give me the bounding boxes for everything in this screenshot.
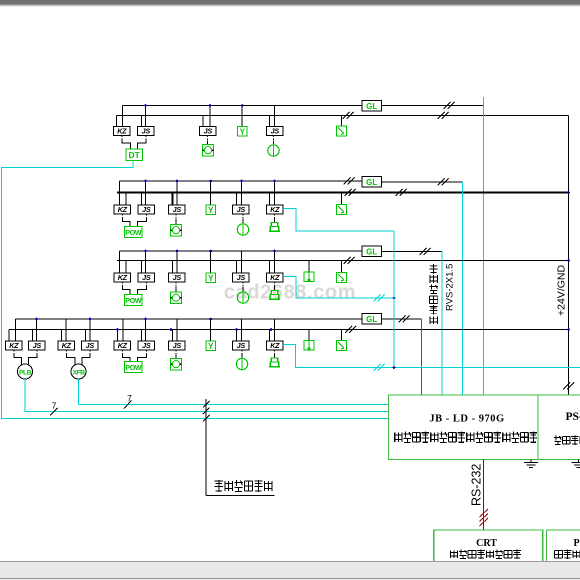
svg-text:JS: JS: [237, 341, 246, 350]
module JS row3-1: [138, 273, 155, 282]
module KZ row2-2: [274, 214, 276, 218]
module JS row1-2: [207, 136, 209, 141]
printer box: [546, 530, 580, 562]
svg-text:GL: GL: [366, 315, 377, 324]
row2 module taps: [125, 193, 127, 206]
multi line control label leader: [206, 495, 275, 497]
device DT fire door module: [126, 149, 143, 161]
module KZ row1: [114, 127, 131, 136]
status bar bottom: [0, 561, 580, 563]
svg-text:RVS-2X1.5: RVS-2X1.5: [445, 264, 456, 311]
svg-text:Y: Y: [240, 128, 246, 137]
row3 control cyan wire: [283, 277, 394, 299]
svg-text:JS: JS: [237, 273, 246, 282]
module KZ row4-1: [114, 341, 131, 350]
gl repeater row1: [362, 101, 382, 112]
ground symbol PS: [577, 460, 579, 463]
row1 loop drop cyan: [483, 97, 485, 395]
svg-text:KZ: KZ: [270, 341, 280, 350]
panel name hanzi: [395, 432, 402, 442]
svg-text:JS: JS: [142, 205, 151, 214]
svg-text:JB - LD - 970G: JB - LD - 970G: [429, 414, 504, 425]
svg-text:KZ: KZ: [270, 205, 280, 214]
module JS row4-2: [175, 350, 177, 355]
module JS row2-1: [138, 205, 155, 214]
svg-text:GL: GL: [366, 178, 377, 187]
power module POW row3: [125, 295, 143, 306]
sound light alarm row4: [304, 341, 314, 351]
wires modules to POW row3: [121, 282, 123, 287]
module JS row2-2: [175, 214, 177, 219]
svg-text:Y: Y: [208, 274, 214, 283]
gl repeater row2: [362, 177, 382, 188]
row2 control cyan wire: [283, 209, 394, 232]
svg-text:+24V/GND: +24V/GND: [556, 265, 568, 316]
module JS row3-2: [175, 282, 177, 287]
row2 GL output wire: [382, 181, 463, 183]
row3 lower bus wire: [117, 260, 569, 262]
power module POW row2: [125, 227, 143, 238]
row2 upper bus wire: [120, 180, 363, 182]
hash on 24V feed: [563, 383, 574, 390]
svg-text:KZ: KZ: [118, 205, 128, 214]
svg-text:JS: JS: [271, 127, 280, 136]
svg-text:JS: JS: [173, 273, 182, 282]
junction dots row1: [144, 104, 147, 107]
multi line control label text: [215, 480, 223, 492]
row1 GL output wire: [382, 105, 484, 107]
manual call point Y row2: [206, 205, 216, 215]
alarm bell row4: [271, 358, 277, 362]
module KZ row4-a: [6, 341, 23, 350]
svg-text:JS: JS: [173, 205, 182, 214]
printer name hanzi: [555, 550, 563, 558]
short circuit isolator row1: [337, 126, 347, 136]
module JS row2-3: [242, 214, 244, 219]
row4 loop drop magenta: [421, 319, 423, 395]
module KZ row3: [114, 273, 131, 282]
row3 GL output wire: [382, 251, 443, 253]
RS-232 hash marks: [480, 509, 489, 517]
gl repeater row3: [362, 246, 382, 257]
module JS row4-a: [29, 341, 46, 350]
row2 lower bus wire thick: [117, 191, 569, 193]
wires modules to PLB pump: [13, 350, 15, 355]
alarm bell row2: [271, 223, 277, 227]
heat detector row3: [237, 292, 248, 303]
svg-text:DT: DT: [129, 150, 141, 160]
CRT name hanzi: [450, 550, 457, 558]
sound light alarm row3: [304, 272, 314, 282]
PLB control cable cyan: [25, 379, 389, 412]
svg-text:JS: JS: [142, 341, 151, 350]
wire hash marks row3: [344, 257, 355, 264]
svg-text:7: 7: [127, 393, 132, 403]
ground symbol JB: [530, 460, 532, 463]
svg-text:GL: GL: [366, 247, 377, 256]
svg-text:GL: GL: [366, 102, 377, 111]
manual call point Y row3: [206, 273, 216, 283]
svg-text:JS: JS: [173, 341, 182, 350]
cyan collector vertical: [393, 231, 395, 368]
smoke detector row3: [171, 292, 182, 304]
alarm bell row3: [271, 291, 277, 295]
svg-text:JS: JS: [204, 127, 213, 136]
svg-text:JS: JS: [142, 273, 151, 282]
wire hash marks row2: [344, 178, 355, 185]
svg-text:Y: Y: [208, 342, 214, 351]
svg-text:XFB: XFB: [72, 370, 85, 377]
row1 module taps: [141, 116, 143, 127]
row1 24V feed corner: [568, 116, 570, 396]
svg-text:KZ: KZ: [118, 273, 128, 282]
DT control cable cyan: [2, 161, 389, 419]
svg-text:POW: POW: [125, 296, 142, 305]
module JS row4-1: [138, 341, 155, 350]
junction dots row2: [144, 180, 147, 183]
window title bar top: [0, 0, 580, 4]
heat detector row1: [268, 145, 279, 156]
smoke detector row2: [171, 225, 182, 237]
junction dots row4: [35, 318, 38, 321]
row4 module taps: [32, 330, 34, 342]
manual call point Y row4: [206, 341, 216, 351]
fire pump XFB: [71, 364, 86, 379]
row1 lower bus wire: [117, 115, 569, 117]
svg-text:PJ: PJ: [574, 538, 580, 549]
row4 lower bus wire: [9, 329, 569, 331]
row3 upper bus wire: [120, 250, 363, 252]
svg-text:POW: POW: [125, 363, 142, 372]
svg-text:KZ: KZ: [9, 341, 19, 350]
module JS row3-3: [242, 282, 244, 287]
svg-text:7: 7: [52, 400, 57, 410]
smoke detector row4: [171, 359, 182, 371]
row3 loop drop cyan: [441, 252, 443, 396]
manual call point Y row1: [238, 127, 248, 137]
PS name hanzi: [554, 436, 562, 446]
XFB control cable cyan: [79, 379, 389, 405]
row4 GL output wire: [382, 318, 422, 320]
module JS row1-3: [273, 136, 275, 141]
module JS row4-b: [82, 341, 99, 350]
wires modules to XFB pump: [65, 350, 67, 355]
svg-text:KZ: KZ: [62, 341, 72, 350]
module KZ row3-2: [274, 282, 276, 286]
svg-text:KZ: KZ: [117, 127, 127, 136]
module JS row1-1: [138, 127, 155, 136]
row1 upper bus wire: [123, 105, 363, 107]
svg-text:Y: Y: [208, 206, 214, 215]
wire hash marks row1: [343, 112, 354, 119]
row4 control cyan wire to right edge: [283, 345, 580, 368]
control panel JB-LD-970G box: [389, 395, 538, 460]
svg-text:PLB: PLB: [19, 370, 32, 377]
short circuit isolator row4: [337, 341, 347, 351]
short circuit isolator row3: [337, 273, 347, 283]
heat detector row4: [236, 358, 247, 369]
wires modules to DT: [121, 136, 123, 141]
svg-text:JS: JS: [237, 205, 246, 214]
svg-text:POW: POW: [125, 228, 142, 237]
loop label hanzi vertical: [430, 264, 438, 273]
junction dot row2 bus right: [567, 191, 570, 194]
gl repeater row4: [362, 314, 382, 325]
row3 module taps: [125, 261, 127, 274]
svg-text:CRT: CRT: [476, 538, 497, 549]
svg-text:JS: JS: [33, 341, 42, 350]
smoke detector row1: [203, 145, 214, 157]
heat detector row2: [237, 224, 248, 235]
svg-text:JS: JS: [86, 341, 95, 350]
junction dot row3: [393, 297, 396, 300]
svg-text:RS-232: RS-232: [470, 464, 484, 506]
wire hash marks row4: [345, 326, 356, 333]
svg-text:KZ: KZ: [118, 341, 128, 350]
row4 upper bus wire: [16, 318, 363, 320]
module KZ row4-2: [274, 350, 276, 354]
power supply PS box: [538, 395, 580, 460]
module KZ row2: [114, 205, 131, 214]
multi line control wire: [205, 399, 207, 496]
row2 loop drop cyan: [462, 182, 464, 395]
wires modules to POW row2: [121, 214, 123, 219]
RS-232 wire maroon: [483, 460, 485, 531]
svg-text:JS: JS: [142, 127, 151, 136]
junction dot row4 bus right: [567, 328, 570, 331]
module KZ row4-b: [58, 341, 75, 350]
wires modules to POW row4: [121, 350, 123, 355]
short circuit isolator row2: [337, 205, 347, 215]
junction dots row3: [144, 250, 147, 253]
svg-text:KZ: KZ: [270, 273, 280, 282]
svg-text:cad2688.com: cad2688.com: [224, 282, 356, 304]
power module POW row4: [125, 362, 143, 373]
sprinkler pump PLB: [18, 364, 33, 379]
CRT graphics workstation box: [434, 530, 543, 562]
module JS row4-3: [241, 350, 243, 355]
svg-text:PS-: PS-: [566, 411, 580, 423]
